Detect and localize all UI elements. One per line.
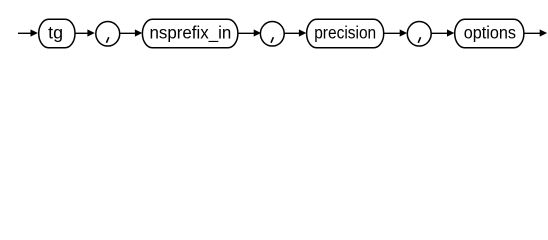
svg-text:precision: precision bbox=[314, 23, 376, 43]
svg-text:options: options bbox=[464, 23, 516, 43]
svg-text:nspreﬁx_in: nspreﬁx_in bbox=[149, 23, 231, 43]
svg-text:tg: tg bbox=[48, 23, 63, 43]
